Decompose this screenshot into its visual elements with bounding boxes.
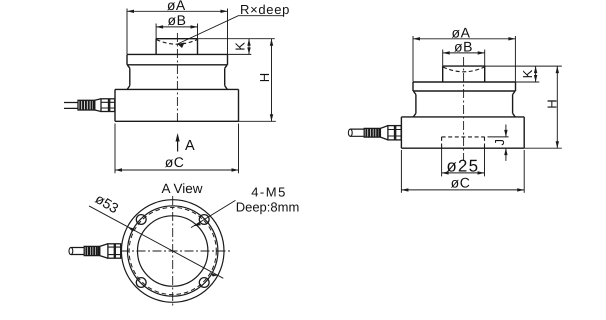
vertical centerline (176, 33, 178, 124)
base bottom line with H extension (401, 147, 561, 149)
label phi-C right (451, 175, 471, 191)
flange circle (128, 206, 218, 296)
svg-text:A View: A View (161, 181, 202, 196)
recess hidden outline (442, 137, 485, 148)
dimension phi-25 (442, 148, 485, 176)
label J (492, 139, 507, 146)
label A (185, 138, 195, 154)
label phi-C (165, 154, 185, 170)
outer circle (121, 200, 224, 303)
boss left edge (442, 66, 444, 82)
flange bottom line (127, 64, 228, 66)
label K right (520, 69, 535, 78)
neck left edge (129, 68, 131, 85)
svg-text:H: H (257, 73, 272, 82)
bolt circle dashed (129, 207, 216, 294)
A-view cable tip (69, 247, 73, 254)
boss top face line (156, 38, 197, 40)
bolt hole bottom-left (136, 278, 146, 288)
gland hex nut 1 (101, 99, 109, 112)
neck right edge (224, 68, 226, 85)
cable tip (348, 129, 352, 136)
label A View (161, 181, 202, 196)
vertical centerline (172, 196, 174, 307)
leader R x deep (178, 16, 284, 48)
A-view cable (71, 248, 84, 255)
label K (232, 42, 247, 51)
label phi-53 (93, 190, 122, 216)
svg-text:ø53: ø53 (93, 190, 122, 216)
label R x deep (240, 2, 290, 17)
A-view gland ribbed strain relief (84, 246, 100, 255)
dimension H (270, 39, 273, 122)
svg-text:K: K (232, 42, 247, 51)
gland cone (95, 99, 101, 112)
cable gland ribbed strain relief (78, 100, 95, 110)
neck left edge (415, 95, 417, 114)
svg-text:øB: øB (454, 38, 473, 54)
inner circle (138, 216, 208, 286)
base top line (115, 88, 239, 90)
dimension K (247, 39, 250, 55)
gland hex nut 2 (110, 99, 115, 112)
right flare (513, 113, 516, 117)
A-view gland hex nut 1 (108, 244, 114, 258)
flange right edge (227, 54, 229, 64)
boss top extension line to K and H dims (198, 38, 275, 40)
label phi-A (167, 0, 186, 13)
base bottom line with H extension (115, 120, 276, 122)
svg-text:H: H (545, 99, 560, 108)
dimension phi-B right (443, 50, 485, 67)
spherical seat hidden arc (443, 67, 484, 72)
svg-text:øC: øC (451, 175, 471, 191)
flange bottom line (413, 90, 516, 92)
svg-text:A: A (185, 138, 195, 154)
cable (350, 129, 364, 136)
right flare (225, 86, 228, 90)
left flare (127, 86, 130, 90)
vertical centerline (463, 57, 465, 161)
neck right edge (512, 95, 514, 114)
label H (257, 73, 272, 82)
base right edge (238, 89, 240, 121)
phi-53 diameter line (89, 206, 223, 278)
cable (64, 103, 78, 109)
base left edge (114, 89, 116, 121)
dimension phi-A right (413, 36, 515, 82)
A-view gland cone (100, 244, 108, 258)
horizontal centerline (121, 250, 233, 252)
label Deep:8mm (236, 200, 300, 215)
dimension phi-C right (401, 150, 524, 193)
leader 4-M5 (191, 200, 235, 227)
label 4-M5 (251, 185, 287, 200)
svg-text:J: J (492, 139, 507, 146)
svg-text:øC: øC (165, 154, 185, 170)
left chamfer (413, 91, 416, 95)
svg-text:øB: øB (168, 12, 187, 28)
label H right (545, 99, 560, 108)
base left edge (400, 117, 402, 148)
bolt hole top-right (199, 215, 209, 225)
label phi-B (168, 12, 187, 28)
svg-text:R×deep: R×deep (240, 2, 290, 17)
dimension K right (534, 66, 537, 82)
left chamfer (127, 65, 130, 69)
bolt hole bottom-right (199, 278, 209, 288)
gland hex nut 1 (388, 126, 395, 140)
flange top line with K extension (127, 53, 251, 55)
boss top face line with K and H extension (443, 65, 562, 67)
flange top line with K extension (413, 81, 539, 83)
left flare (413, 113, 416, 117)
J extension line (488, 136, 509, 138)
boss right edge (484, 66, 486, 82)
right chamfer (513, 91, 516, 95)
boss left edge (155, 39, 157, 55)
base right edge (523, 117, 525, 148)
flange left edge (126, 54, 128, 64)
right chamfer (225, 65, 228, 69)
flange right edge (515, 82, 517, 91)
label phi-B right (454, 38, 473, 54)
dimension phi-C (115, 124, 239, 174)
bolt hole top-left (136, 215, 146, 225)
view direction arrow A (176, 133, 180, 152)
svg-text:4-M5: 4-M5 (251, 185, 287, 200)
dimension J (504, 125, 507, 161)
cable gland ribbed strain relief (364, 128, 380, 137)
svg-text:ø25: ø25 (446, 157, 479, 176)
A-view gland hex nut 2 (115, 244, 120, 258)
gland cone (380, 126, 388, 140)
label phi-A right (452, 25, 471, 41)
gland hex nut 2 (396, 126, 402, 140)
base top line (401, 116, 524, 118)
flange left edge (412, 82, 414, 91)
dimension H right (556, 66, 559, 148)
spherical seat hidden arc (157, 40, 198, 45)
svg-text:K: K (520, 69, 535, 78)
dimension phi-B (156, 24, 197, 39)
dimension phi-A (127, 9, 228, 55)
label phi-25 (446, 157, 479, 176)
boss right edge (197, 39, 199, 55)
svg-text:Deep:8mm: Deep:8mm (236, 200, 300, 215)
